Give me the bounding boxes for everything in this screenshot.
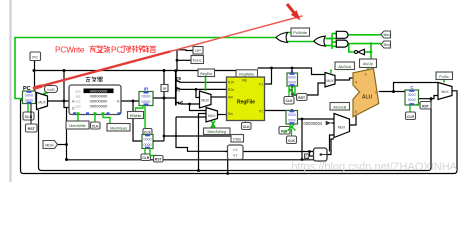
svg-text:PC: PC bbox=[111, 45, 122, 55]
splitter leg rt bbox=[176, 87, 181, 89]
wire rs to regfile bbox=[181, 81, 227, 83]
B CLK bbox=[285, 124, 297, 144]
green AluSrcA sel bbox=[330, 70, 332, 74]
svg-text:MemWrite: MemWrite bbox=[69, 124, 85, 128]
svg-text:CLR: CLR bbox=[407, 115, 415, 119]
label AluOp bbox=[360, 59, 377, 68]
svg-text:IorD: IorD bbox=[47, 88, 54, 92]
constant 00000004 bbox=[304, 121, 335, 126]
mux AluSrcA bbox=[325, 73, 335, 88]
svg-text:D: D bbox=[117, 100, 120, 104]
svg-text:IR: IR bbox=[163, 87, 167, 91]
wire rt to regfile bbox=[181, 88, 227, 90]
B RST bbox=[279, 127, 290, 135]
svg-text:rd: rd bbox=[178, 100, 183, 106]
green wire between or gates bbox=[288, 41, 315, 43]
wire memory Din stub bbox=[64, 101, 69, 108]
wire bottom bus C bbox=[21, 100, 455, 174]
label PcWrite bbox=[291, 28, 310, 36]
svg-text:MUX: MUX bbox=[338, 126, 346, 130]
wire C out down to bus bbox=[428, 99, 431, 171]
svg-text:0000: 0000 bbox=[288, 113, 296, 117]
wire OP tap bbox=[177, 50, 193, 71]
svg-text:MemRead: MemRead bbox=[110, 126, 127, 130]
wire memtoreg in2 bbox=[199, 114, 207, 171]
wire pcsrc mux out down bbox=[452, 91, 457, 174]
svg-text:R2#: R2# bbox=[228, 88, 234, 92]
svg-text:RegFile: RegFile bbox=[237, 100, 255, 106]
wire B out down to busA bbox=[301, 119, 303, 160]
clk box mem bbox=[91, 122, 101, 129]
svg-text:CLK: CLK bbox=[288, 139, 296, 143]
label PC probe bbox=[30, 52, 41, 61]
green wire and1 to Beq bbox=[348, 34, 381, 36]
MDR CLR bbox=[141, 149, 151, 161]
wire MDR out to PDin bbox=[153, 140, 164, 142]
label Func bbox=[191, 56, 204, 64]
wire IR out to splitter bbox=[153, 97, 176, 99]
label MemRead bbox=[107, 124, 130, 132]
svg-text:0000: 0000 bbox=[408, 98, 416, 102]
svg-text:0000: 0000 bbox=[25, 94, 33, 98]
svg-text:PcWrite: PcWrite bbox=[293, 30, 308, 35]
svg-text:CLR: CLR bbox=[142, 156, 150, 160]
label Bne bbox=[381, 41, 392, 48]
label AluSrcA bbox=[335, 62, 355, 70]
svg-text:0000: 0000 bbox=[288, 81, 296, 85]
wire regdst mux out bbox=[211, 96, 227, 98]
PC register bbox=[23, 86, 36, 104]
C CLR bbox=[406, 104, 420, 120]
wire mux to memory A bbox=[48, 100, 70, 102]
label IR probe bbox=[161, 85, 168, 92]
wire mdin stub bbox=[58, 144, 67, 146]
svg-text:0000: 0000 bbox=[142, 99, 152, 104]
red cjk glyph blocks bbox=[89, 45, 156, 52]
svg-text:P2: P2 bbox=[259, 110, 263, 114]
svg-text:003: 003 bbox=[75, 104, 80, 108]
svg-text:RegDst: RegDst bbox=[200, 72, 212, 76]
svg-text:OP: OP bbox=[195, 48, 201, 53]
label PcSrc bbox=[436, 72, 453, 80]
svg-text:P1: P1 bbox=[259, 83, 263, 87]
RegFile bbox=[227, 77, 265, 121]
wire long top bus bbox=[34, 70, 236, 72]
svg-text:ALU: ALU bbox=[362, 95, 373, 101]
svg-text:001: 001 bbox=[75, 94, 80, 98]
wire MDR branch to memtoreg mux bbox=[176, 116, 206, 118]
svg-text:MUX: MUX bbox=[202, 99, 210, 103]
label MemWrite bbox=[66, 121, 89, 129]
svg-text:00000004: 00000004 bbox=[304, 121, 323, 126]
label OP bbox=[193, 47, 203, 55]
svg-text:Din: Din bbox=[228, 112, 233, 116]
ALU bbox=[353, 69, 379, 117]
svg-text:W#: W# bbox=[228, 96, 233, 100]
A RST bbox=[295, 86, 307, 101]
MDR register bbox=[142, 135, 153, 149]
wire rt to regdst mux bbox=[196, 89, 200, 97]
green wire not chain bbox=[349, 44, 355, 52]
svg-text:0000: 0000 bbox=[408, 93, 416, 97]
svg-text:RegWrite: RegWrite bbox=[239, 73, 254, 77]
RegFile CLK bbox=[242, 121, 252, 130]
svg-text:CLK: CLK bbox=[92, 124, 100, 128]
red annotation text bbox=[55, 45, 122, 55]
svg-text:RST: RST bbox=[422, 104, 430, 108]
wire bottom bus A bbox=[67, 159, 314, 161]
svg-text:D: D bbox=[72, 106, 75, 110]
green RegWrite sel bbox=[245, 77, 247, 78]
green wire PCWrite long bbox=[15, 33, 444, 129]
wire A reg input bbox=[291, 68, 293, 73]
label RegDst bbox=[198, 69, 215, 77]
label Beq bbox=[381, 31, 391, 38]
svg-text:CLK: CLK bbox=[286, 99, 294, 103]
svg-text:AluSrcA: AluSrcA bbox=[338, 65, 352, 69]
wire dff out to mux sel bbox=[327, 139, 334, 155]
gate or-A west bbox=[276, 33, 288, 43]
wire bus drop to memory A junction bbox=[63, 71, 65, 102]
svg-text:0000: 0000 bbox=[288, 76, 296, 80]
sign extend unit bbox=[225, 145, 243, 160]
svg-text:AluOp: AluOp bbox=[363, 62, 373, 66]
wire A reg out to srcA mux bbox=[292, 83, 325, 95]
svg-text:rt: rt bbox=[176, 88, 180, 94]
label MemToReg bbox=[204, 128, 231, 135]
svg-text:WE: WE bbox=[242, 79, 247, 83]
gate or-B west bbox=[314, 36, 326, 46]
label AluSrcB bbox=[330, 103, 350, 111]
wire PC probe drop bbox=[34, 61, 36, 92]
wire memory D to IR bbox=[121, 100, 139, 102]
svg-text:MUX: MUX bbox=[38, 100, 46, 104]
label RegWrite bbox=[236, 70, 258, 78]
gate and-C east bbox=[336, 31, 348, 38]
svg-text:https://blog.csdn.net/ZHAOXINH: https://blog.csdn.net/ZHAOXINHA bbox=[291, 161, 457, 173]
green AluOp to ALU S bbox=[367, 68, 369, 71]
wire B reg out to srcB mux bbox=[298, 118, 335, 120]
svg-text:Func: Func bbox=[193, 58, 202, 63]
wire to sign extend bbox=[176, 117, 228, 151]
PC RST box bbox=[26, 104, 38, 133]
svg-text:0000: 0000 bbox=[288, 118, 296, 122]
clk box IR bbox=[143, 106, 152, 136]
memory box bbox=[69, 77, 121, 115]
page edge line bbox=[10, 0, 12, 182]
svg-text:MUX: MUX bbox=[326, 79, 334, 83]
wire memtoreg mux out bbox=[218, 114, 227, 116]
green wire and2 to Bne bbox=[348, 43, 381, 45]
wire rd to regdst mux bbox=[181, 103, 200, 105]
svg-text:00000000: 00000000 bbox=[90, 103, 109, 108]
svg-text:PDin: PDin bbox=[233, 137, 241, 141]
wire signext down to busC bbox=[227, 160, 229, 174]
mux IorD bbox=[37, 93, 48, 110]
svg-text:000: 000 bbox=[75, 89, 80, 93]
wire ALU out up to pcsrc mux bbox=[394, 83, 439, 92]
svg-text:IRWrite: IRWrite bbox=[130, 114, 142, 118]
D flip flop bbox=[305, 148, 328, 161]
svg-text:1 0: 1 0 bbox=[233, 148, 238, 152]
svg-text:0000: 0000 bbox=[144, 143, 152, 147]
IR register bbox=[139, 87, 153, 106]
svg-text:0000: 0000 bbox=[142, 93, 152, 98]
wire IR probe drop bbox=[163, 71, 165, 142]
wire bus right part bbox=[258, 68, 328, 76]
svg-text:IR: IR bbox=[144, 87, 149, 92]
mux AluSrcB bbox=[334, 114, 350, 138]
memory control wires bbox=[78, 115, 110, 124]
svg-text:rs: rs bbox=[176, 76, 181, 82]
gate not bbox=[358, 49, 365, 55]
wire C out to pcsrc mux bbox=[419, 96, 439, 99]
C register bbox=[405, 85, 419, 105]
splitter leg rd bbox=[176, 102, 181, 104]
label PDin bbox=[231, 135, 244, 143]
wire ALU out to C bbox=[379, 91, 405, 93]
MDR RST bbox=[150, 149, 163, 163]
gate and-D east bbox=[336, 40, 348, 47]
svg-text:002: 002 bbox=[75, 99, 80, 103]
A register bbox=[287, 69, 298, 87]
svg-text:MDin: MDin bbox=[45, 143, 53, 147]
splitter spine bbox=[175, 71, 177, 106]
wire dff in bbox=[309, 155, 314, 157]
mux PcSrc bbox=[438, 83, 452, 100]
B register bbox=[286, 111, 298, 125]
green IorD sel bbox=[44, 93, 48, 95]
svg-text:R1#: R1# bbox=[228, 81, 234, 85]
wire regfile P2 to B reg bbox=[265, 110, 293, 112]
svg-text:4 2: 4 2 bbox=[233, 154, 238, 158]
svg-text:PcSrc: PcSrc bbox=[439, 75, 449, 79]
svg-text:MUX: MUX bbox=[208, 114, 216, 118]
splitter leg rs bbox=[176, 80, 181, 82]
wire bottom bus B bbox=[39, 110, 429, 171]
svg-text:RST: RST bbox=[155, 158, 163, 162]
wire Func tap bbox=[177, 59, 191, 61]
wire regfile P1 up to bus bbox=[265, 68, 272, 84]
wire rd to memtoreg mux bbox=[190, 104, 207, 111]
svg-text:CLK: CLK bbox=[243, 125, 251, 129]
green stubs gate B to and gates bbox=[326, 38, 333, 40]
svg-text:Bne: Bne bbox=[383, 42, 391, 47]
wire sign extend out bbox=[243, 151, 314, 153]
svg-text:0000: 0000 bbox=[144, 137, 152, 141]
mux RegDst bbox=[200, 91, 212, 108]
svg-text:MemToReg: MemToReg bbox=[208, 130, 226, 134]
green MemToReg sel bbox=[211, 121, 215, 129]
svg-text:RST: RST bbox=[28, 127, 36, 131]
PC CLR box bbox=[23, 104, 34, 121]
svg-text:RST: RST bbox=[298, 96, 306, 100]
green wire pcwrite box to gate bbox=[287, 33, 291, 34]
green vertical to AluOp bbox=[370, 44, 372, 59]
svg-text:AluSrcB: AluSrcB bbox=[333, 105, 347, 109]
label IRWrite bbox=[128, 106, 144, 119]
label MDin bbox=[43, 141, 58, 149]
mux MemToReg bbox=[206, 108, 218, 123]
svg-text:MUX: MUX bbox=[441, 90, 449, 94]
green PcSrc sel bbox=[443, 80, 445, 83]
svg-text:PCWrite: PCWrite bbox=[55, 45, 85, 55]
red annotation line bbox=[34, 52, 170, 89]
A CLK bbox=[284, 86, 295, 104]
svg-text:Beq: Beq bbox=[383, 32, 390, 37]
wire srcA mux out to ALU A bbox=[335, 78, 353, 80]
wire D drop to MDR bbox=[133, 101, 142, 141]
red arrow bbox=[287, 4, 296, 15]
label IorD bbox=[45, 86, 58, 93]
wire busA up to mem D bbox=[66, 108, 68, 160]
green RegDst sel bbox=[205, 77, 207, 92]
wire srcB mux out to ALU B bbox=[350, 115, 357, 126]
svg-text:PC: PC bbox=[32, 55, 38, 60]
C RST bbox=[420, 102, 431, 110]
green junction dots bbox=[370, 42, 373, 53]
